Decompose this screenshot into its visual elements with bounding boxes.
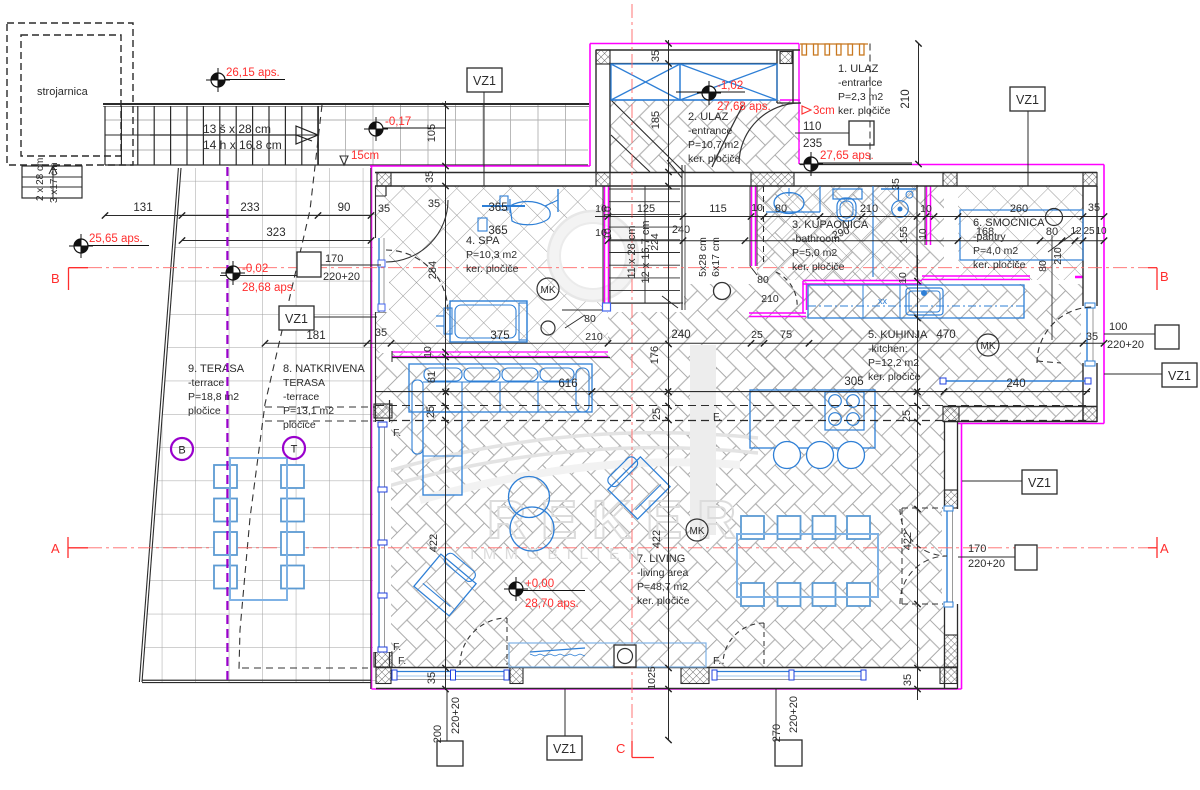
svg-text:10: 10 [920, 203, 932, 215]
svg-text:10: 10 [897, 272, 909, 284]
exterior staircase 13x28cm [22, 104, 589, 203]
svg-text:240: 240 [672, 224, 690, 236]
svg-text:235: 235 [803, 138, 822, 150]
svg-text:35: 35 [650, 50, 662, 62]
svg-text:233: 233 [240, 202, 259, 214]
svg-text:7. LIVING: 7. LIVING [637, 553, 685, 565]
svg-text:10: 10 [602, 206, 614, 218]
svg-text:210: 210 [900, 89, 912, 108]
svg-text:170: 170 [968, 543, 986, 555]
walls, insulated blocks, doors, windows [371, 50, 1099, 689]
svg-text:115: 115 [709, 203, 727, 215]
elevation markers (aps.) [69, 67, 912, 610]
svg-text:strojarnica: strojarnica [37, 86, 89, 98]
svg-text:35: 35 [1086, 331, 1098, 343]
svg-text:P=10,7 m2: P=10,7 m2 [688, 139, 739, 151]
svg-text:-kitchen:: -kitchen: [868, 343, 908, 355]
svg-text:170: 170 [325, 253, 343, 265]
svg-text:F.: F. [393, 427, 401, 439]
svg-text:35: 35 [890, 178, 902, 190]
svg-text:VZ1: VZ1 [285, 312, 308, 326]
pergola slats above entrance [800, 44, 868, 55]
terrace 9 boundary and covered-terrace dashed roof line [139, 105, 375, 683]
svg-text:MK: MK [690, 526, 705, 537]
svg-text:125: 125 [637, 203, 655, 215]
svg-text:105: 105 [426, 124, 438, 142]
svg-text:A: A [51, 541, 60, 556]
svg-text:12 x 16,7 cm: 12 x 16,7 cm [640, 221, 652, 284]
svg-text:VZ1: VZ1 [1016, 93, 1039, 107]
svg-text:F.: F. [713, 411, 721, 423]
svg-text:-living area: -living area [637, 567, 689, 579]
strojarnica (machine room) dashed outline [7, 23, 133, 165]
svg-text:422: 422 [651, 530, 663, 548]
svg-text:12: 12 [1070, 226, 1082, 237]
svg-text:ker. pločiče: ker. pločiče [466, 263, 519, 275]
svg-text:14 h x 16,8 cm: 14 h x 16,8 cm [203, 138, 282, 152]
svg-text:35: 35 [424, 171, 436, 183]
svg-text:MK: MK [541, 285, 556, 296]
svg-text:ker. pločiče: ker. pločiče [838, 105, 891, 117]
svg-text:ker. pločiče: ker. pločiče [688, 153, 741, 165]
svg-text:131: 131 [133, 202, 152, 214]
svg-text:TERASA: TERASA [283, 377, 325, 389]
svg-text:25: 25 [1083, 226, 1095, 237]
svg-text:-0,02: -0,02 [242, 263, 268, 275]
svg-text:210: 210 [761, 293, 779, 305]
svg-text:3cm: 3cm [813, 105, 835, 117]
svg-text:ker. pločiče: ker. pločiče [637, 595, 690, 607]
svg-text:35: 35 [426, 672, 438, 684]
svg-text:270: 270 [771, 724, 783, 742]
svg-text:35: 35 [375, 327, 387, 339]
svg-text:616: 616 [558, 378, 577, 390]
svg-text:10: 10 [1095, 226, 1107, 237]
svg-text:ker. pločiče: ker. pločiče [973, 259, 1026, 271]
svg-text:210: 210 [585, 331, 603, 343]
svg-text:110: 110 [803, 121, 821, 133]
svg-text:220+20: 220+20 [450, 697, 462, 734]
svg-text:-pantry: -pantry [973, 231, 1006, 243]
svg-text:284: 284 [427, 261, 439, 279]
svg-text:VZ1: VZ1 [1028, 476, 1051, 490]
thermal envelope magenta outline [370, 44, 1104, 690]
svg-text:10: 10 [602, 228, 614, 240]
svg-text:5. KUHINJA: 5. KUHINJA [868, 329, 928, 341]
svg-text:xx: xx [878, 296, 888, 306]
svg-text:VZ1: VZ1 [553, 742, 576, 756]
svg-text:365: 365 [488, 202, 507, 214]
svg-text:P=18,8 m2: P=18,8 m2 [188, 391, 239, 403]
svg-text:MK: MK [981, 341, 996, 352]
svg-text:25: 25 [901, 410, 913, 422]
svg-text:470: 470 [936, 329, 955, 341]
svg-text:1. ULAZ: 1. ULAZ [838, 63, 879, 75]
svg-text:185: 185 [650, 111, 662, 129]
svg-text:C: C [616, 741, 625, 756]
svg-text:P=12,2 m2: P=12,2 m2 [868, 357, 919, 369]
svg-text:220+20: 220+20 [1107, 339, 1144, 351]
svg-text:80: 80 [775, 203, 787, 215]
svg-text:P=48,7 m2: P=48,7 m2 [637, 581, 688, 593]
svg-text:5x28 cm: 5x28 cm [697, 237, 709, 277]
svg-text:9. TERASA: 9. TERASA [188, 363, 245, 375]
svg-text:35: 35 [378, 203, 390, 215]
svg-text:220+20: 220+20 [788, 696, 800, 733]
svg-text:pločice: pločice [283, 419, 316, 431]
svg-text:15cm: 15cm [351, 150, 379, 162]
VZ1 ventilation labels [279, 68, 1197, 760]
svg-text:VZ1: VZ1 [1168, 369, 1191, 383]
svg-text:35: 35 [1088, 202, 1100, 214]
svg-text:3 x17 cm: 3 x17 cm [49, 162, 60, 203]
svg-text:P=5,0 m2: P=5,0 m2 [792, 247, 837, 259]
svg-text:F.: F. [713, 655, 721, 667]
svg-text:T: T [291, 444, 298, 456]
svg-text:-terrace: -terrace [188, 377, 224, 389]
svg-text:-0,17: -0,17 [385, 116, 411, 128]
svg-text:90: 90 [338, 202, 351, 214]
svg-text:240: 240 [671, 329, 690, 341]
svg-text:3. KUPAONICA: 3. KUPAONICA [792, 219, 869, 231]
svg-text:F.: F. [398, 655, 406, 667]
svg-text:-1,02: -1,02 [717, 80, 743, 92]
svg-text:25: 25 [651, 408, 663, 420]
svg-text:10: 10 [422, 346, 434, 358]
svg-text:A: A [1160, 541, 1169, 556]
svg-text:-entrance: -entrance [688, 125, 733, 137]
svg-text:F.: F. [393, 641, 401, 653]
svg-text:25: 25 [425, 406, 437, 418]
svg-text:220+20: 220+20 [968, 558, 1005, 570]
room name labels [188, 63, 1045, 667]
svg-text:P=4,0 m2: P=4,0 m2 [973, 245, 1018, 257]
svg-text:240: 240 [1006, 378, 1025, 390]
svg-text:10: 10 [751, 202, 763, 214]
svg-text:25,65 aps.: 25,65 aps. [89, 233, 143, 245]
svg-text:210: 210 [1052, 247, 1064, 265]
svg-text:10: 10 [918, 228, 929, 240]
svg-text:220+20: 220+20 [323, 271, 360, 283]
svg-text:-bathroom: -bathroom [792, 233, 840, 245]
svg-text:I M M O B I L I E N: I M M O B I L I E N [470, 546, 642, 563]
svg-text:210: 210 [860, 203, 878, 215]
svg-text:-entrance: -entrance [838, 77, 883, 89]
svg-text:176: 176 [649, 346, 661, 364]
svg-text:25: 25 [751, 329, 763, 341]
svg-text:100: 100 [1109, 321, 1127, 333]
svg-text:1025: 1025 [646, 666, 658, 690]
svg-text:80: 80 [757, 274, 769, 286]
svg-text:2 x 28 cm: 2 x 28 cm [35, 158, 46, 201]
svg-text:75: 75 [780, 329, 792, 341]
svg-text:VZ1: VZ1 [473, 74, 496, 88]
svg-text:375: 375 [490, 330, 509, 342]
svg-text:80: 80 [584, 313, 596, 325]
svg-text:81: 81 [426, 371, 438, 383]
watermark logo REKER IMMOBILIEN [385, 211, 758, 563]
svg-text:B: B [178, 445, 185, 457]
svg-text:27,65 aps.: 27,65 aps. [820, 150, 874, 162]
svg-text:35: 35 [902, 674, 914, 686]
svg-text:200: 200 [432, 725, 444, 743]
svg-text:80: 80 [1037, 260, 1049, 272]
svg-text:422: 422 [902, 532, 914, 550]
svg-text:35: 35 [428, 198, 440, 210]
floor finishes: terrace grid, herringbone parquet, ceramic crosshatch [142, 168, 376, 682]
svg-text:P=10,3 m2: P=10,3 m2 [466, 249, 517, 261]
svg-text:305: 305 [844, 376, 863, 388]
svg-text:323: 323 [266, 227, 285, 239]
entrance canopy glazing X panels [611, 64, 777, 100]
svg-text:422: 422 [428, 534, 440, 552]
svg-text:+0,00: +0,00 [525, 578, 554, 590]
svg-text:8. NATKRIVENA: 8. NATKRIVENA [283, 363, 365, 375]
svg-text:B: B [51, 271, 60, 286]
svg-text:P=13,1 m2: P=13,1 m2 [283, 405, 334, 417]
svg-text:B: B [1160, 269, 1169, 284]
svg-text:6. SMOČNICA: 6. SMOČNICA [973, 216, 1045, 229]
svg-text:26,15 aps.: 26,15 aps. [226, 67, 280, 79]
svg-text:-terrace: -terrace [283, 391, 319, 403]
svg-text:pločice: pločice [188, 405, 221, 417]
svg-text:155: 155 [898, 226, 910, 244]
svg-text:ker. pločiče: ker. pločiče [792, 261, 845, 273]
svg-text:11 x 28 cm: 11 x 28 cm [626, 226, 638, 279]
furniture: sofa, tables, kitchen, bath fixtures [171, 186, 1091, 667]
svg-text:28,68 aps.: 28,68 aps. [242, 282, 296, 294]
svg-text:ker. pločiče: ker. pločiče [868, 371, 921, 383]
svg-text:13 š x 28 cm: 13 š x 28 cm [203, 122, 271, 136]
svg-text:P=2,3 m2: P=2,3 m2 [838, 91, 883, 103]
svg-text:260: 260 [1010, 203, 1028, 215]
svg-text:4. SPA: 4. SPA [466, 235, 500, 247]
svg-text:27,68 aps.: 27,68 aps. [717, 101, 771, 113]
svg-text:181: 181 [306, 330, 325, 342]
svg-text:6x17 cm: 6x17 cm [710, 237, 722, 277]
svg-text:28,70 aps.: 28,70 aps. [525, 598, 579, 610]
